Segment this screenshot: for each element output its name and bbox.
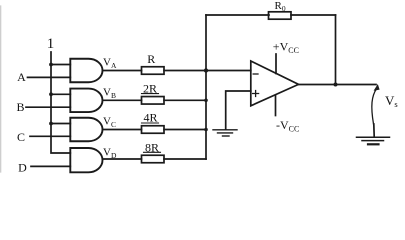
wire input C	[30, 135, 70, 137]
op-amp minus sign	[253, 73, 258, 75]
wire gate D output	[103, 158, 142, 160]
node rail-A junction	[49, 63, 53, 67]
svg-text:R: R	[147, 52, 155, 66]
wire R to bus	[164, 70, 206, 72]
wire +Vcc supply	[275, 54, 277, 74]
and-gate D	[70, 148, 102, 172]
op-amp U1	[251, 61, 299, 106]
wire logic-1 rail	[51, 52, 70, 153]
wire 4R to bus	[164, 129, 206, 131]
wire gate C output	[103, 129, 142, 131]
wire input B	[26, 106, 70, 108]
node bus-4R junction	[204, 128, 208, 132]
wire output	[299, 84, 377, 86]
wire rail to gate B top input	[51, 93, 70, 95]
ground at non-inverting input	[213, 130, 237, 136]
resistor R	[142, 67, 165, 75]
wire gate A output	[103, 70, 142, 72]
resistor 4R	[142, 126, 165, 134]
wire input A	[28, 76, 71, 78]
svg-text:1: 1	[47, 36, 55, 52]
wire inverting input	[206, 70, 251, 72]
and-gate C	[70, 118, 102, 142]
wire gate B output	[103, 99, 142, 101]
wire non-inverting input	[226, 91, 251, 130]
wire rail to gate A top input	[51, 64, 70, 66]
wire -Vcc supply	[275, 96, 277, 116]
Vs arrow	[372, 89, 377, 125]
node rail-B junction	[49, 92, 53, 96]
page edge line	[0, 6, 2, 172]
node feedback-output junction	[334, 83, 338, 87]
wire arrow to ground	[373, 124, 375, 137]
svg-text:C: C	[17, 130, 25, 144]
wire rail to gate C top input	[51, 123, 70, 125]
resistor 2R	[142, 97, 165, 105]
svg-text:A: A	[17, 70, 26, 84]
and-gate A	[70, 59, 102, 83]
wire input D	[31, 165, 70, 167]
wire 2R to bus	[164, 99, 206, 101]
node rail-C junction	[49, 122, 53, 126]
svg-text:4R: 4R	[143, 111, 157, 125]
wire feedback top right	[291, 14, 336, 16]
and-gate B	[70, 89, 102, 113]
ground at output	[357, 137, 390, 144]
wire 8R to bus	[164, 158, 206, 160]
wire feedback top left	[206, 14, 269, 16]
svg-text:B: B	[16, 100, 24, 114]
svg-text:D: D	[18, 160, 27, 174]
node bus-R junction	[204, 68, 208, 72]
resistor 8R	[142, 155, 165, 163]
resistor R0	[269, 12, 292, 19]
wire feedback down	[335, 15, 337, 85]
op-amp plus sign	[253, 91, 259, 97]
wire summing bus	[205, 15, 207, 159]
node bus-2R junction	[204, 99, 208, 103]
